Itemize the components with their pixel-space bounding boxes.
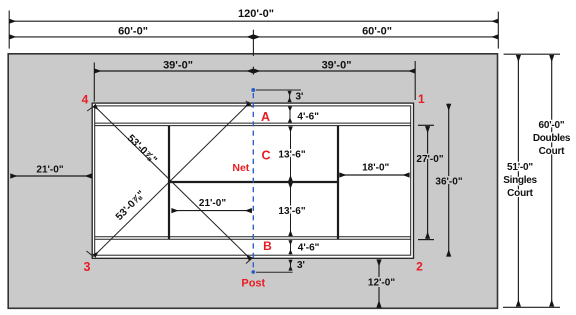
net post dot bottom [251,270,255,274]
svg-text:Court: Court [507,188,534,199]
dimension 39'-0" right line [253,70,415,72]
svg-text:B: B [263,239,272,253]
svg-text:18'-0": 18'-0" [362,163,389,174]
svg-text:C: C [261,148,270,162]
left service line [168,126,170,240]
dimension 27'-0" line [427,126,429,239]
bottom post reference line [256,271,293,273]
svg-text:Singles: Singles [503,175,537,186]
dimension 51'-0" singles line [517,55,519,307]
svg-text:21'-0": 21'-0" [199,198,226,209]
svg-text:Doubles: Doubles [533,133,571,144]
svg-text:39'-0": 39'-0" [322,59,352,71]
dimension 120'-0" line [9,20,498,22]
right extension line top [504,53,560,55]
dimension 3' top arrow [289,91,291,102]
singles sideline bottom (double line) [95,237,411,240]
court outer boundary rectangle [92,103,413,258]
surround pavement gray box [8,54,497,308]
extension line 39 right [414,61,416,100]
svg-text:13'-6": 13'-6" [278,206,305,217]
dimension 21'-0" left arrow [10,175,91,177]
svg-text:Net: Net [232,162,249,174]
extension line 39 left [93,63,95,102]
svg-text:Court: Court [539,146,566,157]
net post dot top [251,88,255,92]
svg-text:3': 3' [296,92,304,103]
svg-text:51'-0": 51'-0" [507,162,533,173]
singles sideline top (double line) [95,123,411,126]
right extension line bottom [503,306,560,308]
extension tick 39 center [252,67,254,75]
svg-text:36'-0": 36'-0" [435,176,462,187]
dimension 13'-6" lower arrow [290,183,292,236]
dimension 60'-0" left line [9,36,253,38]
diagonal dimension 53'-0 7/8" (corner 4 to net bottom) [87,105,254,264]
svg-text:A: A [261,110,270,124]
svg-text:60'-0": 60'-0" [539,120,565,131]
dimension 21'-0" inner arrow [172,210,252,212]
svg-text:Post: Post [241,277,265,289]
svg-text:27'-0": 27'-0" [416,154,443,165]
dimension 3' bottom arrow [290,260,292,271]
svg-text:39'-0": 39'-0" [163,59,193,71]
svg-text:4'-6": 4'-6" [298,242,320,253]
dimension 60'-0" right line [253,36,498,38]
dimension 18'-0" arrow [339,174,409,176]
svg-text:1: 1 [418,92,425,106]
dimension 4'-6" top arrow [289,107,291,123]
svg-text:13'-6": 13'-6" [278,150,305,161]
center service line [169,181,338,183]
tick 27 bottom [418,239,434,241]
top post reference line [256,89,301,91]
svg-text:4: 4 [82,92,89,106]
dimension 60'-0" doubles line [551,55,553,307]
net dashed blue line [252,93,254,270]
extension line right [497,12,499,49]
svg-text:3: 3 [84,260,91,274]
extension line left [8,11,10,49]
diagonal dimension 53'-0 7/8" (corner 3 to net top) [86,101,252,257]
svg-text:60'-0": 60'-0" [362,26,392,38]
tick 27 top [418,124,434,126]
svg-text:21'-0": 21'-0" [36,164,63,175]
svg-text:3': 3' [297,260,305,271]
dimension 36'-0" line [448,104,450,257]
svg-text:12'-0": 12'-0" [368,277,395,288]
dimension 12'-0" line [378,260,380,308]
extension line center [252,30,254,56]
svg-text:2: 2 [416,259,423,273]
dimension 13'-6" upper arrow [290,127,292,182]
right service line [337,126,339,240]
dimension 39'-0" left line [94,70,253,72]
svg-text:4'-6": 4'-6" [297,111,319,122]
dimension 4'-6" bottom arrow [290,240,292,254]
court inner boundary rectangle [95,106,411,255]
svg-text:60'-0": 60'-0" [118,26,148,38]
svg-text:120'-0": 120'-0" [238,8,274,20]
